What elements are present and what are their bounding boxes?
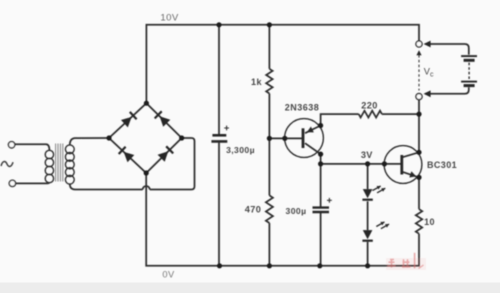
svg-text:0V: 0V <box>162 270 175 280</box>
svg-text:3,300µ: 3,300µ <box>226 145 255 155</box>
svg-text:470: 470 <box>245 204 262 214</box>
svg-text:3V: 3V <box>361 150 373 160</box>
svg-text:220: 220 <box>361 101 378 111</box>
svg-text:300µ: 300µ <box>286 206 307 216</box>
svg-text:1k: 1k <box>251 77 263 87</box>
svg-text:2N3638: 2N3638 <box>285 103 320 113</box>
svg-text:10: 10 <box>424 217 435 227</box>
svg-text:BC301: BC301 <box>427 160 457 170</box>
svg-text:10V: 10V <box>160 12 178 23</box>
